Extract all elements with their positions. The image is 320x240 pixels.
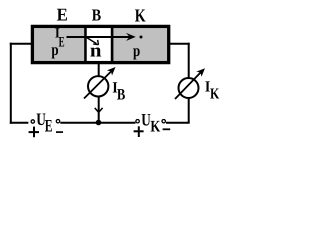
svg-text:E: E bbox=[45, 115, 53, 135]
svg-text:E: E bbox=[59, 34, 65, 50]
svg-text:E: E bbox=[57, 5, 68, 25]
svg-text:K: K bbox=[210, 86, 219, 103]
svg-text:n: n bbox=[90, 41, 102, 62]
svg-text:B: B bbox=[117, 87, 126, 104]
svg-text:B: B bbox=[92, 6, 101, 25]
svg-text:p: p bbox=[51, 40, 58, 59]
svg-text:K: K bbox=[135, 6, 146, 26]
svg-text:p: p bbox=[133, 41, 140, 60]
svg-text:K: K bbox=[150, 117, 160, 135]
